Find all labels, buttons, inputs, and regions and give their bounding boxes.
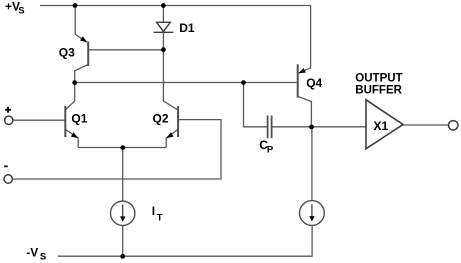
svg-text:Q4: Q4 (306, 76, 322, 90)
svg-text:I: I (152, 204, 155, 218)
svg-text:T: T (157, 213, 163, 224)
svg-text:Q1: Q1 (71, 111, 87, 125)
svg-text:OUTPUT: OUTPUT (355, 73, 402, 85)
svg-text:Q3: Q3 (59, 45, 75, 59)
svg-text:S: S (18, 6, 24, 17)
svg-text:Q2: Q2 (153, 112, 169, 126)
svg-text:-V: -V (26, 246, 38, 260)
svg-text:D1: D1 (179, 21, 195, 35)
svg-text:P: P (267, 144, 274, 155)
svg-text:BUFFER: BUFFER (355, 85, 402, 97)
svg-text:X1: X1 (374, 119, 389, 133)
svg-text:S: S (40, 251, 46, 262)
